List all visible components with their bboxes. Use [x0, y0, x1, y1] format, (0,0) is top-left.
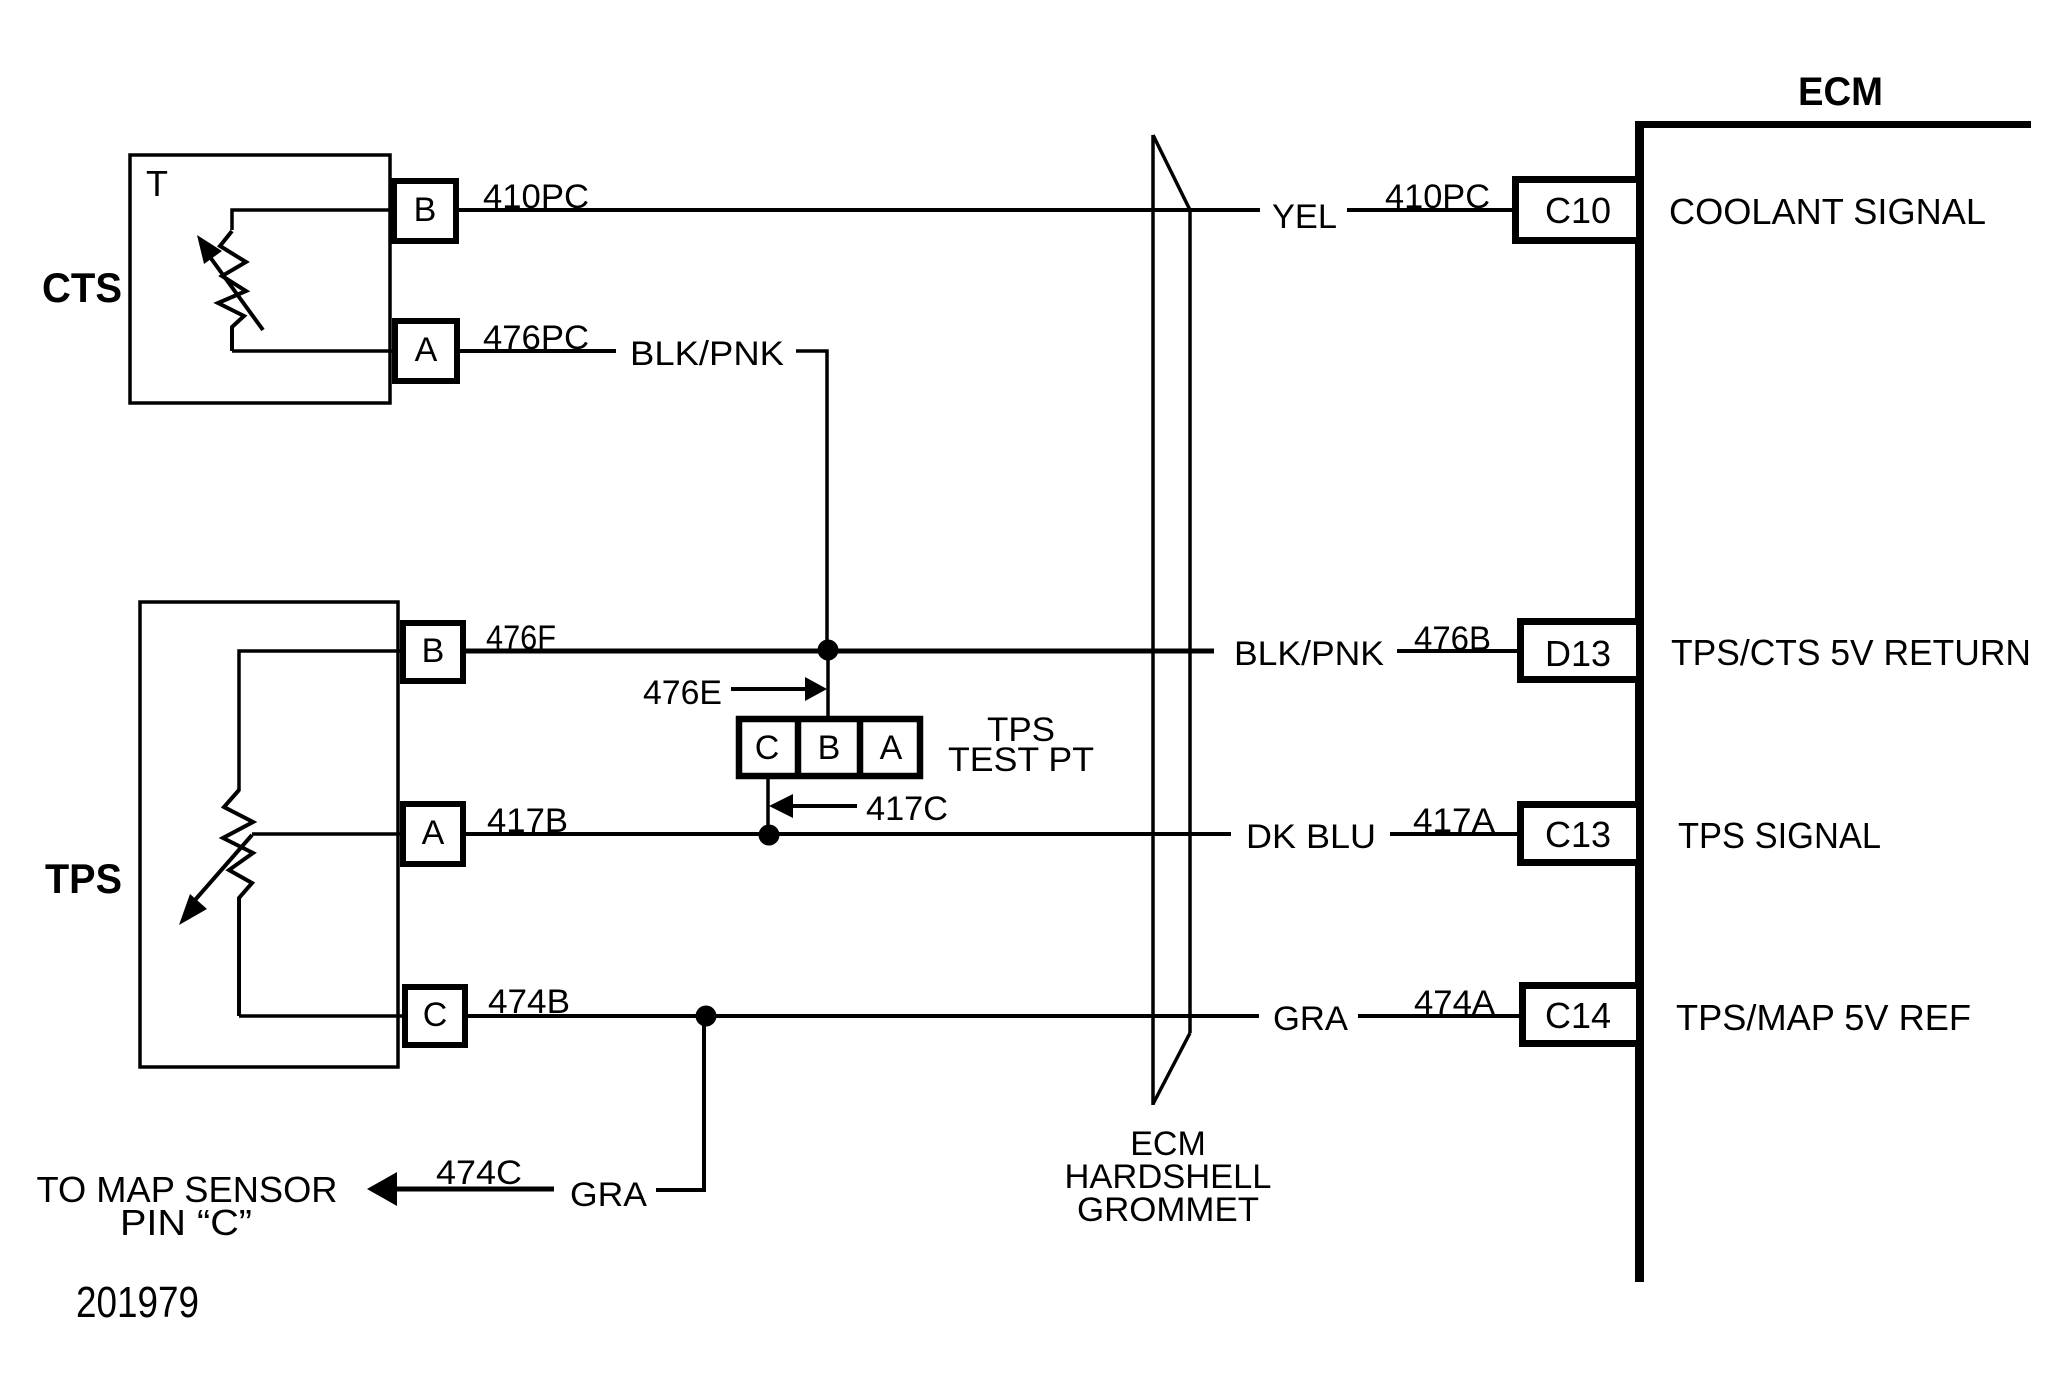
- svg-text:417A: 417A: [1413, 802, 1495, 840]
- svg-text:B: B: [818, 729, 841, 767]
- TPS wiper wire to pin A: [252, 832, 403, 836]
- arrow 417C head: [769, 794, 793, 818]
- svg-text:TPS/MAP 5V REF: TPS/MAP 5V REF: [1676, 997, 1971, 1038]
- svg-text:YEL: YEL: [1272, 198, 1337, 236]
- ECM top boundary line: [1635, 121, 2031, 128]
- svg-text:ECM: ECM: [1798, 70, 1883, 114]
- svg-text:474B: 474B: [488, 983, 570, 1021]
- wire 417A into ECM C13: [1390, 832, 1520, 836]
- grommet top slant: [1153, 135, 1190, 210]
- svg-text:476F: 476F: [486, 619, 556, 657]
- arrow 476E head: [805, 677, 827, 701]
- CTS thermistor arrow shaft: [210, 257, 263, 330]
- svg-text:C: C: [423, 996, 448, 1034]
- junction dot 476: [818, 640, 839, 661]
- svg-text:T: T: [146, 163, 168, 204]
- TPS wiper arrow shaft: [195, 835, 252, 900]
- connector pin CTS B: [394, 181, 456, 241]
- svg-text:BLK/PNK: BLK/PNK: [630, 335, 784, 373]
- wire stub test point C down to 417 junction: [766, 776, 770, 835]
- arrow 474C shaft: [394, 1187, 554, 1192]
- wire stub junction to TPS test point B: [826, 651, 830, 719]
- connector pin CTS A: [395, 321, 457, 381]
- svg-text:GRA: GRA: [570, 1176, 647, 1214]
- connector pin TPS C: [405, 987, 465, 1045]
- test point cell divider B/A: [857, 717, 864, 778]
- connector pin TPS A: [403, 804, 463, 864]
- svg-text:D13: D13: [1545, 633, 1611, 674]
- junction dot 417: [759, 825, 780, 846]
- wire 474B from TPS C to grommet: [468, 1014, 1259, 1018]
- svg-text:476B: 476B: [1414, 620, 1491, 658]
- TPS potentiometer zigzag: [223, 790, 253, 1016]
- svg-text:474A: 474A: [1414, 984, 1495, 1022]
- ECM terminal D13: [1521, 622, 1640, 680]
- svg-text:TPS SIGNAL: TPS SIGNAL: [1678, 815, 1881, 856]
- TPS internal wire to pin B: [239, 651, 403, 791]
- ECM terminal C10: [1516, 180, 1640, 241]
- svg-text:201979: 201979: [76, 1278, 199, 1327]
- ECM vertical boundary bar: [1635, 121, 1644, 1282]
- grommet right edge: [1188, 210, 1192, 1033]
- wire 410PC into ECM C10: [1347, 208, 1516, 212]
- svg-text:COOLANT SIGNAL: COOLANT SIGNAL: [1669, 191, 1986, 232]
- arrow 474C head: [367, 1172, 397, 1206]
- svg-text:417B: 417B: [487, 802, 568, 840]
- svg-text:410PC: 410PC: [1385, 178, 1490, 216]
- svg-text:GROMMET: GROMMET: [1077, 1191, 1259, 1229]
- svg-text:476E: 476E: [643, 674, 722, 712]
- svg-text:A: A: [415, 331, 438, 369]
- CTS internal wire to pin B: [232, 210, 394, 230]
- ECM terminal C13: [1521, 805, 1640, 863]
- wire 417B from TPS A to grommet: [466, 832, 1231, 836]
- wire 476F from TPS B to grommet: [464, 649, 1214, 654]
- test point cell divider C/B: [795, 717, 802, 778]
- svg-text:A: A: [880, 729, 903, 767]
- svg-text:476PC: 476PC: [483, 319, 589, 357]
- TPS wiper arrow head: [179, 894, 207, 925]
- TPS internal wire to pin C: [239, 1014, 406, 1018]
- svg-text:CTS: CTS: [42, 264, 122, 311]
- svg-text:DK BLU: DK BLU: [1246, 818, 1376, 856]
- grommet bottom slant: [1153, 1033, 1190, 1104]
- svg-text:417C: 417C: [866, 790, 948, 828]
- svg-text:TPS: TPS: [45, 855, 122, 902]
- wire 476PC from CTS A: [460, 349, 616, 353]
- CTS internal wire to pin A: [232, 349, 395, 353]
- grommet left edge: [1151, 135, 1155, 1105]
- wire 474A into ECM C14: [1358, 1014, 1522, 1018]
- junction dot 474: [696, 1006, 717, 1027]
- svg-text:TEST PT: TEST PT: [948, 741, 1094, 779]
- connector pin TPS B: [403, 623, 463, 681]
- svg-text:BLK/PNK: BLK/PNK: [1234, 635, 1384, 673]
- arrow 417C shaft: [792, 804, 857, 808]
- svg-text:474C: 474C: [436, 1154, 522, 1192]
- svg-text:PIN “C”: PIN “C”: [120, 1202, 252, 1243]
- svg-text:C: C: [755, 729, 780, 767]
- CTS thermistor zigzag: [218, 231, 246, 351]
- CTS sensor box: [130, 155, 390, 403]
- wire 476B into ECM D13: [1397, 649, 1520, 653]
- svg-text:C14: C14: [1545, 995, 1611, 1036]
- wire elbow from 474 junction down to GRA branch: [656, 1016, 704, 1190]
- TPS sensor box: [140, 602, 398, 1067]
- grommet caption ECM HARDSHELL GROMMET: [1065, 1125, 1272, 1229]
- CTS thermistor arrow head: [197, 235, 222, 264]
- svg-text:B: B: [414, 191, 437, 229]
- svg-text:B: B: [422, 632, 445, 670]
- wire elbow down from BLK/PNK to junction: [796, 351, 827, 650]
- svg-text:GRA: GRA: [1273, 1000, 1348, 1038]
- svg-text:C10: C10: [1545, 190, 1611, 231]
- arrow 476E shaft: [731, 687, 809, 691]
- svg-text:TPS/CTS 5V RETURN: TPS/CTS 5V RETURN: [1671, 632, 2031, 673]
- svg-text:410PC: 410PC: [483, 178, 589, 216]
- TPS test point connector body: [739, 719, 920, 776]
- wire 410PC from CTS B to grommet: [459, 208, 1260, 212]
- ECM terminal C14: [1523, 986, 1640, 1044]
- svg-text:C13: C13: [1545, 814, 1611, 855]
- svg-text:A: A: [422, 814, 445, 852]
